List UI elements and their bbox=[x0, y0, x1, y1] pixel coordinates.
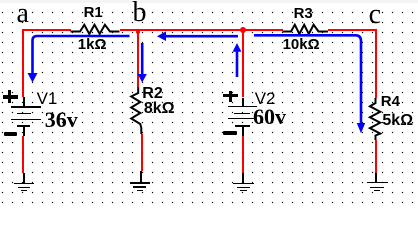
V2 minus sign bbox=[223, 131, 238, 135]
V1 ref label bbox=[37, 90, 58, 107]
ground under R4 bbox=[375, 173, 377, 183]
wire V1 bottom to ground bbox=[22, 136, 24, 173]
wire top segment a to R1 bbox=[22, 29, 71, 31]
R3 value label 10kΩ bbox=[283, 37, 320, 52]
wire top segment R3 to c bbox=[328, 29, 377, 31]
R1 ref label bbox=[84, 5, 103, 20]
wire left vertical (node a down to V1) bbox=[22, 29, 24, 97]
R4 value label 5kΩ bbox=[382, 113, 413, 129]
node a label bbox=[17, 0, 29, 28]
junction fillet at node b bbox=[136, 30, 141, 35]
wire node b vertical down to R2 bbox=[137, 31, 139, 88]
wire V2 branch vertical down bbox=[242, 31, 244, 97]
wire V2 bottom to ground bbox=[242, 136, 244, 174]
R3 ref label bbox=[294, 6, 313, 21]
V1 value label 36v bbox=[45, 109, 78, 131]
node c label bbox=[369, 1, 381, 29]
ground under R2 bbox=[140, 171, 142, 183]
battery V1 (36v) bbox=[23, 97, 25, 106]
V2 value label 60v bbox=[253, 106, 286, 128]
junction dot at V2 top node bbox=[240, 27, 246, 33]
V1 minus sign bbox=[4, 132, 17, 136]
R4 ref label bbox=[381, 94, 400, 109]
R2 ref label bbox=[142, 86, 162, 102]
V2 ref label bbox=[255, 90, 276, 107]
wire R4 bottom to ground bbox=[375, 140, 377, 173]
battery V2 (60v) bbox=[242, 98, 244, 106]
ground under V2 bbox=[242, 173, 244, 183]
wire R2 bottom to ground bbox=[141, 134, 143, 172]
node b label bbox=[133, 0, 147, 27]
R2 value label 8kΩ bbox=[144, 101, 175, 117]
V2 plus sign bbox=[223, 94, 238, 98]
ground under V1 bbox=[23, 173, 25, 184]
wire top segment R1 to R3 (through node b and V2 junction) bbox=[120, 29, 283, 31]
wire right vertical (node c down to R4) bbox=[375, 29, 377, 98]
V1 plus sign bbox=[3, 95, 18, 98]
R1 value label 1kΩ bbox=[78, 37, 107, 52]
